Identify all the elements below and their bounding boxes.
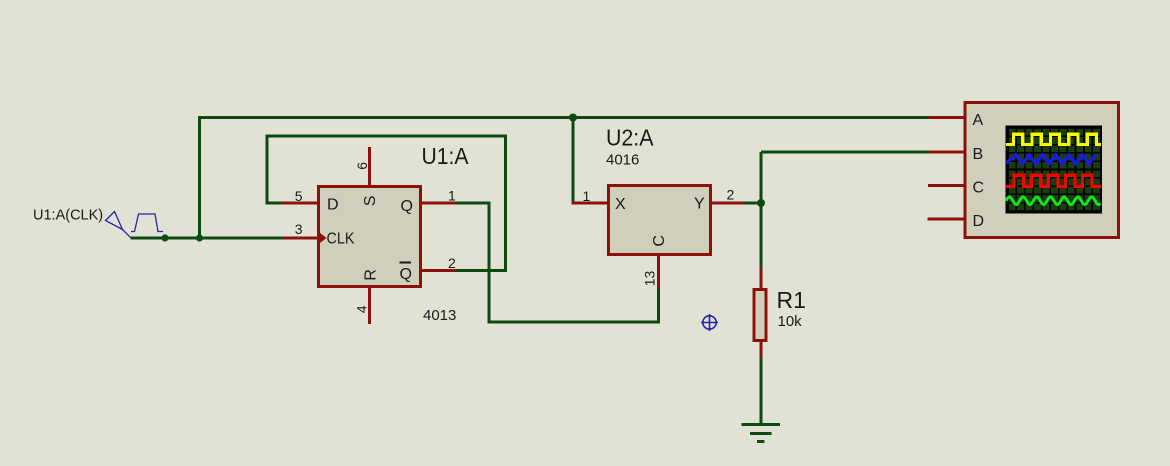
scope screen grid [1008,128,1101,211]
switch U2:A body [609,186,711,255]
scope screen bezel [1005,125,1102,213]
svg-text:5: 5 [295,188,303,204]
ground symbol [742,425,781,442]
svg-text:1: 1 [448,188,456,204]
svg-text:R1: R1 [777,287,806,313]
origin marker crosshair [701,314,718,331]
wire junction up to scope B [761,152,929,205]
wire Y node down to R1 [760,203,763,269]
scope trace D green sine [1006,197,1100,205]
U1 pin 5 D stub [282,202,318,205]
wire clock source to CLK pin [131,237,284,240]
svg-text:Q: Q [400,266,412,283]
svg-text:D: D [327,197,339,214]
svg-text:4016: 4016 [606,152,639,169]
scope trace A yellow square [1006,134,1101,144]
svg-text:4: 4 [354,305,370,313]
svg-text:D: D [973,213,985,230]
scope pin D stub [928,218,964,221]
U1 pin 6 S stub [368,147,371,186]
R1 bottom pin stub [760,342,763,357]
junction dot clock-1 [161,234,168,241]
scope pin A stub [929,116,964,119]
svg-text:1: 1 [583,188,591,204]
R1 top pin stub [760,269,763,289]
resistor R1 body [754,290,766,341]
scope trace B blue sine [1006,155,1095,164]
svg-text:R: R [363,269,380,281]
U1 CLK edge triangle [318,232,327,245]
svg-text:C: C [651,235,668,247]
U1 pin 4 R stub [368,287,371,324]
svg-text:Y: Y [694,196,705,213]
wire Y output to junction [744,202,761,205]
svg-text:S: S [362,195,379,206]
wire Qbar feedback to D [267,136,506,271]
svg-text:2: 2 [448,255,456,271]
generator flag triangle [106,212,131,238]
svg-text:U1:A: U1:A [422,143,470,169]
svg-text:A: A [973,112,984,129]
generator pulse symbol [131,214,163,232]
U1 pin 3 CLK stub [284,237,318,240]
svg-text:10k: 10k [778,313,803,330]
scope trace C red square [1006,175,1101,186]
junction dot clock-2 [196,234,203,241]
svg-text:B: B [973,146,984,163]
wire Q to switch control C [456,203,659,322]
svg-text:U1:A(CLK): U1:A(CLK) [33,208,103,224]
wire clock net left vertical [198,116,201,240]
wire clock drop to X input [572,116,575,202]
U1 pin 2 Qbar stub [422,269,456,272]
svg-text:13: 13 [642,271,658,287]
svg-text:CLK: CLK [327,231,355,248]
U2 pin 2 Y stub [712,202,744,205]
flip-flop U1:A body [319,187,421,287]
svg-text:Q: Q [401,198,413,215]
svg-text:3: 3 [295,221,303,237]
junction dot clock-top [569,114,577,122]
U2 pin 1 X stub [572,202,608,205]
junction dot Y node [757,199,765,207]
svg-text:X: X [615,196,626,213]
U1 pin 1 Q stub [422,202,456,205]
wire R1 to ground [760,356,763,424]
scope pin B stub [929,151,964,154]
svg-text:C: C [973,180,985,197]
svg-text:U2:A: U2:A [606,125,654,151]
U2 pin 13 C stub [657,256,660,288]
svg-text:2: 2 [727,187,735,203]
wire clock net top horizontal [198,116,929,119]
scope pin C stub [928,184,964,187]
svg-text:4013: 4013 [423,307,456,324]
oscilloscope body [965,103,1119,238]
svg-text:6: 6 [354,162,370,170]
